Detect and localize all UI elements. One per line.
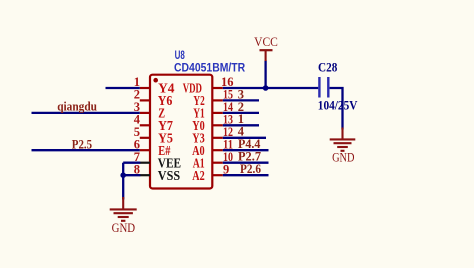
pin 3 Z — [134, 100, 165, 120]
wire net 3 (pin 15) — [223, 99, 259, 101]
wire net qiangdu (pin 3) — [32, 112, 140, 114]
svg-text:P2.5: P2.5 — [72, 137, 92, 151]
pin 11 A0 — [192, 137, 233, 157]
pin 5 Y5 — [134, 125, 173, 145]
pin 2 Y6 — [134, 88, 173, 108]
wire net 1 (pin 13) — [223, 124, 259, 126]
pin 1 Y4 — [134, 75, 175, 95]
svg-text:GND: GND — [112, 221, 136, 235]
wire net P2.6 (pin 9) — [223, 174, 269, 176]
ground GND left — [110, 197, 137, 235]
wire pin 7 VEE to ground rail — [123, 162, 140, 164]
svg-text:CD4051BM/TR: CD4051BM/TR — [174, 62, 246, 74]
pin 10 A1 — [193, 150, 233, 170]
IC U8 pin-1 orientation dot — [153, 78, 158, 83]
junction VSS net — [120, 172, 126, 178]
wire net P2.7 (pin 10) — [223, 162, 269, 164]
wire VCC stem — [264, 61, 266, 89]
svg-text:A2: A2 — [192, 168, 205, 183]
svg-text:VSS: VSS — [158, 168, 180, 183]
pin 4 Y7 — [134, 113, 173, 133]
svg-text:qiangdu: qiangdu — [57, 99, 97, 113]
wire capacitor C28 to ground — [330, 88, 343, 130]
pin 12 Y3 — [192, 125, 233, 145]
pin 6 E# — [134, 137, 171, 157]
pin 13 Y0 — [192, 113, 233, 133]
ground GND right — [330, 128, 356, 165]
power VCC — [254, 35, 278, 61]
IC U8 body — [150, 75, 212, 189]
svg-text:VCC: VCC — [254, 35, 278, 49]
wire pin 8 VSS to ground rail — [123, 174, 140, 176]
wire net 2 (pin 14) — [223, 112, 259, 114]
wire pin 1 net — [106, 87, 140, 89]
pin 9 A2 — [192, 162, 229, 182]
svg-text:U8: U8 — [175, 50, 186, 62]
wire net VCC (pin 16 to capacitor) — [223, 87, 318, 89]
pin 15 Y2 — [193, 88, 233, 108]
pin 16 VDD — [183, 75, 234, 95]
capacitor C28 — [319, 77, 328, 98]
wire net P2.5 (pin 6) — [32, 149, 140, 151]
svg-text:GND: GND — [332, 150, 354, 164]
wire net 4 (pin 12) — [223, 137, 266, 139]
wire ground rail vertical — [122, 163, 124, 200]
svg-text:104/25V: 104/25V — [318, 98, 358, 112]
svg-text:C28: C28 — [318, 61, 337, 75]
wire net P4.4 (pin 11) — [223, 149, 269, 151]
svg-text:P2.6: P2.6 — [240, 162, 261, 176]
pin 14 Y1 — [193, 100, 233, 120]
junction VCC net at pin 16 — [263, 85, 269, 91]
pin 7 VEE — [134, 150, 181, 170]
pin 8 VSS — [134, 162, 180, 182]
